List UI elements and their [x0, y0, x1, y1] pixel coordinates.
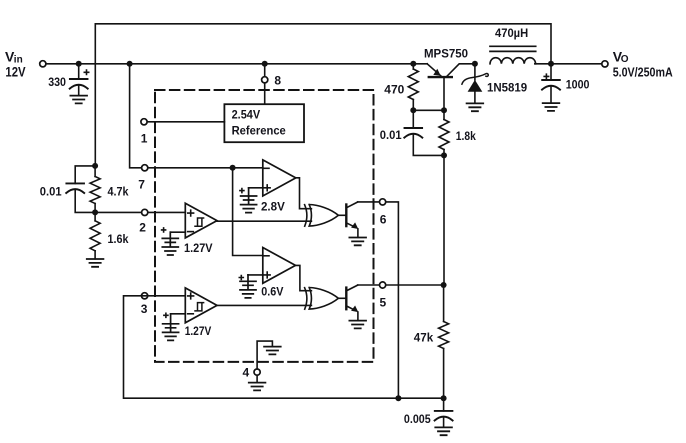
inductor 470uH [490, 58, 536, 64]
svg-text:7: 7 [138, 178, 145, 192]
diode 1N5819 [474, 64, 476, 80]
schottky curve [462, 74, 488, 85]
IC boundary dashed box [155, 90, 374, 362]
svg-text:12V: 12V [5, 64, 26, 80]
svg-text:6: 6 [380, 213, 387, 227]
wire pin2 [95, 211, 185, 213]
svg-text:470: 470 [384, 85, 404, 97]
svg-text:1.6k: 1.6k [108, 234, 130, 246]
svg-text:0.6V: 0.6V [261, 287, 283, 299]
junction divider mid / pin2 [92, 209, 98, 215]
pin 8 [262, 77, 268, 83]
capacitor 330 [78, 64, 80, 79]
svg-text:2: 2 [139, 221, 146, 235]
junction 470 bottom [410, 107, 416, 113]
wire 470 to base [413, 109, 444, 111]
wire 1.8k node down to 47k [443, 155, 445, 321]
wire feedback top: Vo to divider [95, 24, 551, 166]
battery reference 1.27V (pin3) [171, 313, 186, 315]
pin 3 terminal [142, 293, 148, 299]
pin 4 [254, 369, 260, 375]
resistor 470 [408, 69, 418, 100]
junction 330 cap on rail [76, 61, 82, 67]
ground 1000 cap [543, 103, 560, 111]
battery reference 1.27V (pin2) [170, 231, 185, 233]
XOR gate 2 [305, 288, 339, 310]
hysteresis symbol [195, 218, 204, 226]
ground 330 cap [70, 96, 87, 104]
svg-text:1.27V: 1.27V [185, 326, 212, 338]
wire pin7 drop [130, 64, 263, 168]
transistor MPS750 [429, 76, 452, 78]
svg-text:1.8k: 1.8k [456, 131, 477, 143]
junction diode node [472, 61, 478, 67]
capacitor 0.01 right [412, 110, 414, 128]
wire op-amp pin3 output to XOR2 [217, 304, 311, 306]
battery reference 0.6V [248, 274, 263, 276]
node Vin input terminal [40, 61, 46, 67]
XOR gate 1 [305, 205, 339, 227]
pin 2 terminal [142, 209, 148, 215]
junction pin8 drop on rail [262, 61, 268, 67]
resistor 4.7k [90, 177, 100, 204]
junction pin5 wire to 47k column [441, 282, 447, 288]
junction base node [441, 107, 447, 113]
transistor Q1 output (pin 6) [345, 205, 347, 227]
capacitor 1000 [550, 64, 552, 80]
wire Vin rail [46, 63, 427, 65]
svg-text:2.8V: 2.8V [261, 202, 285, 214]
ground diode [467, 103, 484, 111]
svg-text:5: 5 [380, 296, 387, 310]
svg-text:1000: 1000 [566, 80, 590, 92]
wire Q1 emitter to ground [357, 229, 359, 237]
ground Q1 [349, 238, 366, 246]
svg-text:0.01: 0.01 [380, 130, 402, 142]
capacitor 0.005 [443, 398, 445, 411]
pin 7 [142, 165, 148, 171]
block 2.54V Reference [224, 104, 304, 142]
svg-text:4.7k: 4.7k [108, 186, 130, 198]
resistor 1.6k [90, 221, 100, 251]
svg-text:8: 8 [274, 73, 281, 87]
resistor 1.8k [439, 120, 449, 150]
junction Vo node [548, 61, 554, 67]
junction comparator minus tee [230, 165, 236, 171]
battery reference 2.8V [249, 187, 263, 189]
svg-text:1N5819: 1N5819 [487, 83, 527, 95]
hysteresis symbol 2 [195, 303, 204, 311]
ground pin 4 [256, 375, 258, 382]
op-amp 1.27V (pin 3) [185, 288, 217, 323]
svg-text:330: 330 [48, 77, 66, 89]
pin 4 ground stub inside IC [257, 341, 272, 369]
wire MPS750 base lead [443, 77, 445, 110]
wire Q1 collector to pin 6 [358, 202, 399, 398]
wire XOR2 output to Q2 base [338, 297, 345, 299]
transistor Q2 output (pin 5) [345, 288, 347, 310]
pin 5 [380, 282, 386, 288]
svg-text:5.0V/250mA: 5.0V/250mA [613, 65, 673, 80]
svg-text:3: 3 [141, 302, 148, 316]
svg-text:47k: 47k [414, 333, 434, 345]
op-amp comparator 2.8V [263, 160, 296, 196]
junction pin6 line to bottom rail [395, 395, 401, 401]
wire 2.8V comparator output to XOR1 [296, 178, 312, 209]
pin 6 [380, 199, 386, 205]
pin 1 [144, 121, 224, 123]
op-amp comparator 0.6V [263, 248, 296, 284]
junction pin7 drop on rail [127, 61, 133, 67]
svg-text:0.005: 0.005 [404, 414, 431, 426]
svg-text:Reference: Reference [232, 125, 286, 137]
ground Q2 [349, 321, 366, 329]
svg-text:2.54V: 2.54V [232, 109, 261, 121]
svg-text:MPS750: MPS750 [424, 49, 468, 61]
op-amp 1.27V (pin 2) [185, 203, 217, 238]
ground 1.6k [87, 259, 104, 267]
wire tee down to 0.6V comparator [233, 168, 263, 256]
wire pin 3 to bottom rail [124, 296, 444, 398]
wire pin8 drop [264, 64, 266, 104]
svg-text:1: 1 [141, 132, 148, 146]
svg-text:O: O [621, 54, 629, 65]
junction MPS750 emitter / 470 resistor [410, 61, 416, 67]
svg-text:1.27V: 1.27V [184, 243, 213, 255]
svg-text:0.01: 0.01 [40, 186, 62, 198]
junction bottom rail to 0.005 [441, 395, 447, 401]
node Vo output terminal [602, 61, 608, 67]
ground 0.005 [435, 427, 452, 435]
junction divider top [92, 163, 98, 169]
capacitor 0.01 left [75, 166, 95, 184]
resistor 47k [439, 322, 449, 349]
svg-text:470µH: 470µH [495, 28, 528, 40]
wire 0.6V comparator output to XOR2 [296, 265, 312, 290]
wire Q2 collector / pin 5 to 47k node [358, 284, 444, 286]
wire op-amp pin2 output to XOR1 [217, 220, 311, 222]
svg-text:4: 4 [243, 366, 250, 380]
wire Q2 emitter to ground [357, 312, 359, 320]
junction 1.8k bottom [441, 152, 447, 158]
wire inductor to Vo node [535, 63, 602, 65]
wire XOR1 output to Q1 base [338, 214, 345, 216]
